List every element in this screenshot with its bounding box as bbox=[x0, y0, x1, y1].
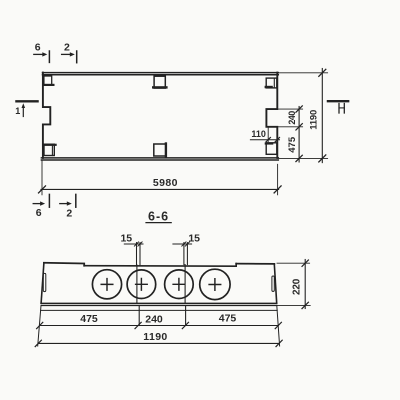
section outline: bottom edge (double) bbox=[41, 302, 277, 304]
core circle 4 bbox=[200, 269, 230, 299]
bottom dimensions: right extension bbox=[277, 306, 280, 347]
plan top edge (double line) bbox=[43, 72, 279, 74]
bottom dimensions: line A bbox=[41, 309, 278, 311]
section marker 2 top: arrow and cut line bbox=[62, 53, 70, 55]
edge groove left bbox=[43, 273, 46, 291]
dimension 220: extension lines bbox=[277, 262, 310, 264]
svg-text:2: 2 bbox=[66, 207, 72, 219]
section marker 1 right: rotated label and tick bbox=[338, 104, 340, 114]
lifting loop square top-middle bbox=[154, 76, 165, 88]
section outline: right lip bbox=[236, 263, 274, 265]
core circle 4 plus bbox=[209, 279, 221, 291]
bottom dimensions: left extension bbox=[38, 306, 41, 347]
lifting loop square bottom-middle bbox=[154, 144, 166, 156]
core circle 1 bbox=[92, 270, 121, 299]
core circle 1 plus bbox=[101, 279, 113, 291]
section outline: right edge bbox=[274, 264, 276, 303]
edge groove right bbox=[272, 276, 274, 291]
lifting loop square bottom-left bbox=[44, 144, 54, 155]
svg-text:475: 475 bbox=[219, 313, 237, 325]
dimension 240/475: dimension line bbox=[298, 107, 300, 163]
section marker 6 top: arrow and cut line bbox=[34, 53, 43, 55]
dimension 1190 right: extension lines bbox=[278, 72, 327, 74]
svg-text:15: 15 bbox=[120, 232, 132, 244]
svg-text:240: 240 bbox=[287, 111, 297, 125]
section outline: left lip bbox=[44, 263, 84, 266]
svg-text:1190: 1190 bbox=[308, 110, 319, 130]
core circle 3 bbox=[165, 270, 194, 299]
joint line 2 through section bbox=[184, 265, 186, 303]
dimension 240/475: extension lines bbox=[277, 108, 302, 110]
core circle 2 bbox=[127, 270, 156, 299]
svg-text:110: 110 bbox=[251, 129, 266, 139]
svg-text:475: 475 bbox=[80, 313, 98, 325]
lifting loop square bottom-right bbox=[266, 143, 277, 155]
svg-text:6-6: 6-6 bbox=[148, 210, 169, 224]
lifting loop square top-left bbox=[44, 76, 52, 85]
bottom dimensions: line B with ticks bbox=[40, 325, 279, 327]
svg-text:1190: 1190 bbox=[143, 331, 167, 343]
svg-text:220: 220 bbox=[292, 278, 303, 295]
bottom dimensions: line C with ticks bbox=[38, 342, 279, 344]
dimension 110: extension line bbox=[267, 127, 269, 141]
dimension 5980: dimension line bbox=[41, 188, 279, 190]
bottom marker 2: cut line arrow label bbox=[75, 194, 77, 207]
svg-text:6: 6 bbox=[36, 207, 42, 219]
section marker 1 right: trace line bbox=[328, 100, 348, 102]
svg-text:475: 475 bbox=[287, 136, 298, 153]
section outline: main top bbox=[84, 264, 236, 267]
svg-text:6: 6 bbox=[35, 42, 41, 54]
svg-text:240: 240 bbox=[145, 313, 163, 325]
lifting loop square top-right bbox=[266, 78, 277, 88]
svg-text:15: 15 bbox=[188, 232, 200, 244]
section outline: left edge bbox=[41, 263, 44, 304]
core circle 3 plus bbox=[173, 279, 185, 291]
plan left edge with keyway notch bbox=[43, 73, 50, 158]
bottom marker 6: cut line arrow label bbox=[48, 194, 50, 207]
plan bottom edge (double line) bbox=[41, 157, 278, 159]
dimension 15 (right joint): dim line and extension pair bbox=[173, 243, 192, 245]
section marker 1 left: trace line bbox=[16, 100, 37, 102]
dimension 110: dimension line bbox=[250, 139, 279, 141]
joint line 1 through section bbox=[136, 265, 138, 303]
dimension 15 (left joint): dim line and extension pair bbox=[124, 243, 143, 245]
dimension 220: dimension line bbox=[304, 260, 306, 309]
svg-text:2: 2 bbox=[64, 42, 70, 54]
dimension 5980: extension lines bbox=[41, 161, 43, 195]
svg-text:1: 1 bbox=[15, 106, 20, 116]
svg-text:5980: 5980 bbox=[153, 177, 178, 189]
core circle 2 plus bbox=[136, 279, 148, 291]
dimension 1190 right: dimension line bbox=[321, 69, 323, 163]
plan right edge with keyway cutout bbox=[266, 73, 277, 158]
